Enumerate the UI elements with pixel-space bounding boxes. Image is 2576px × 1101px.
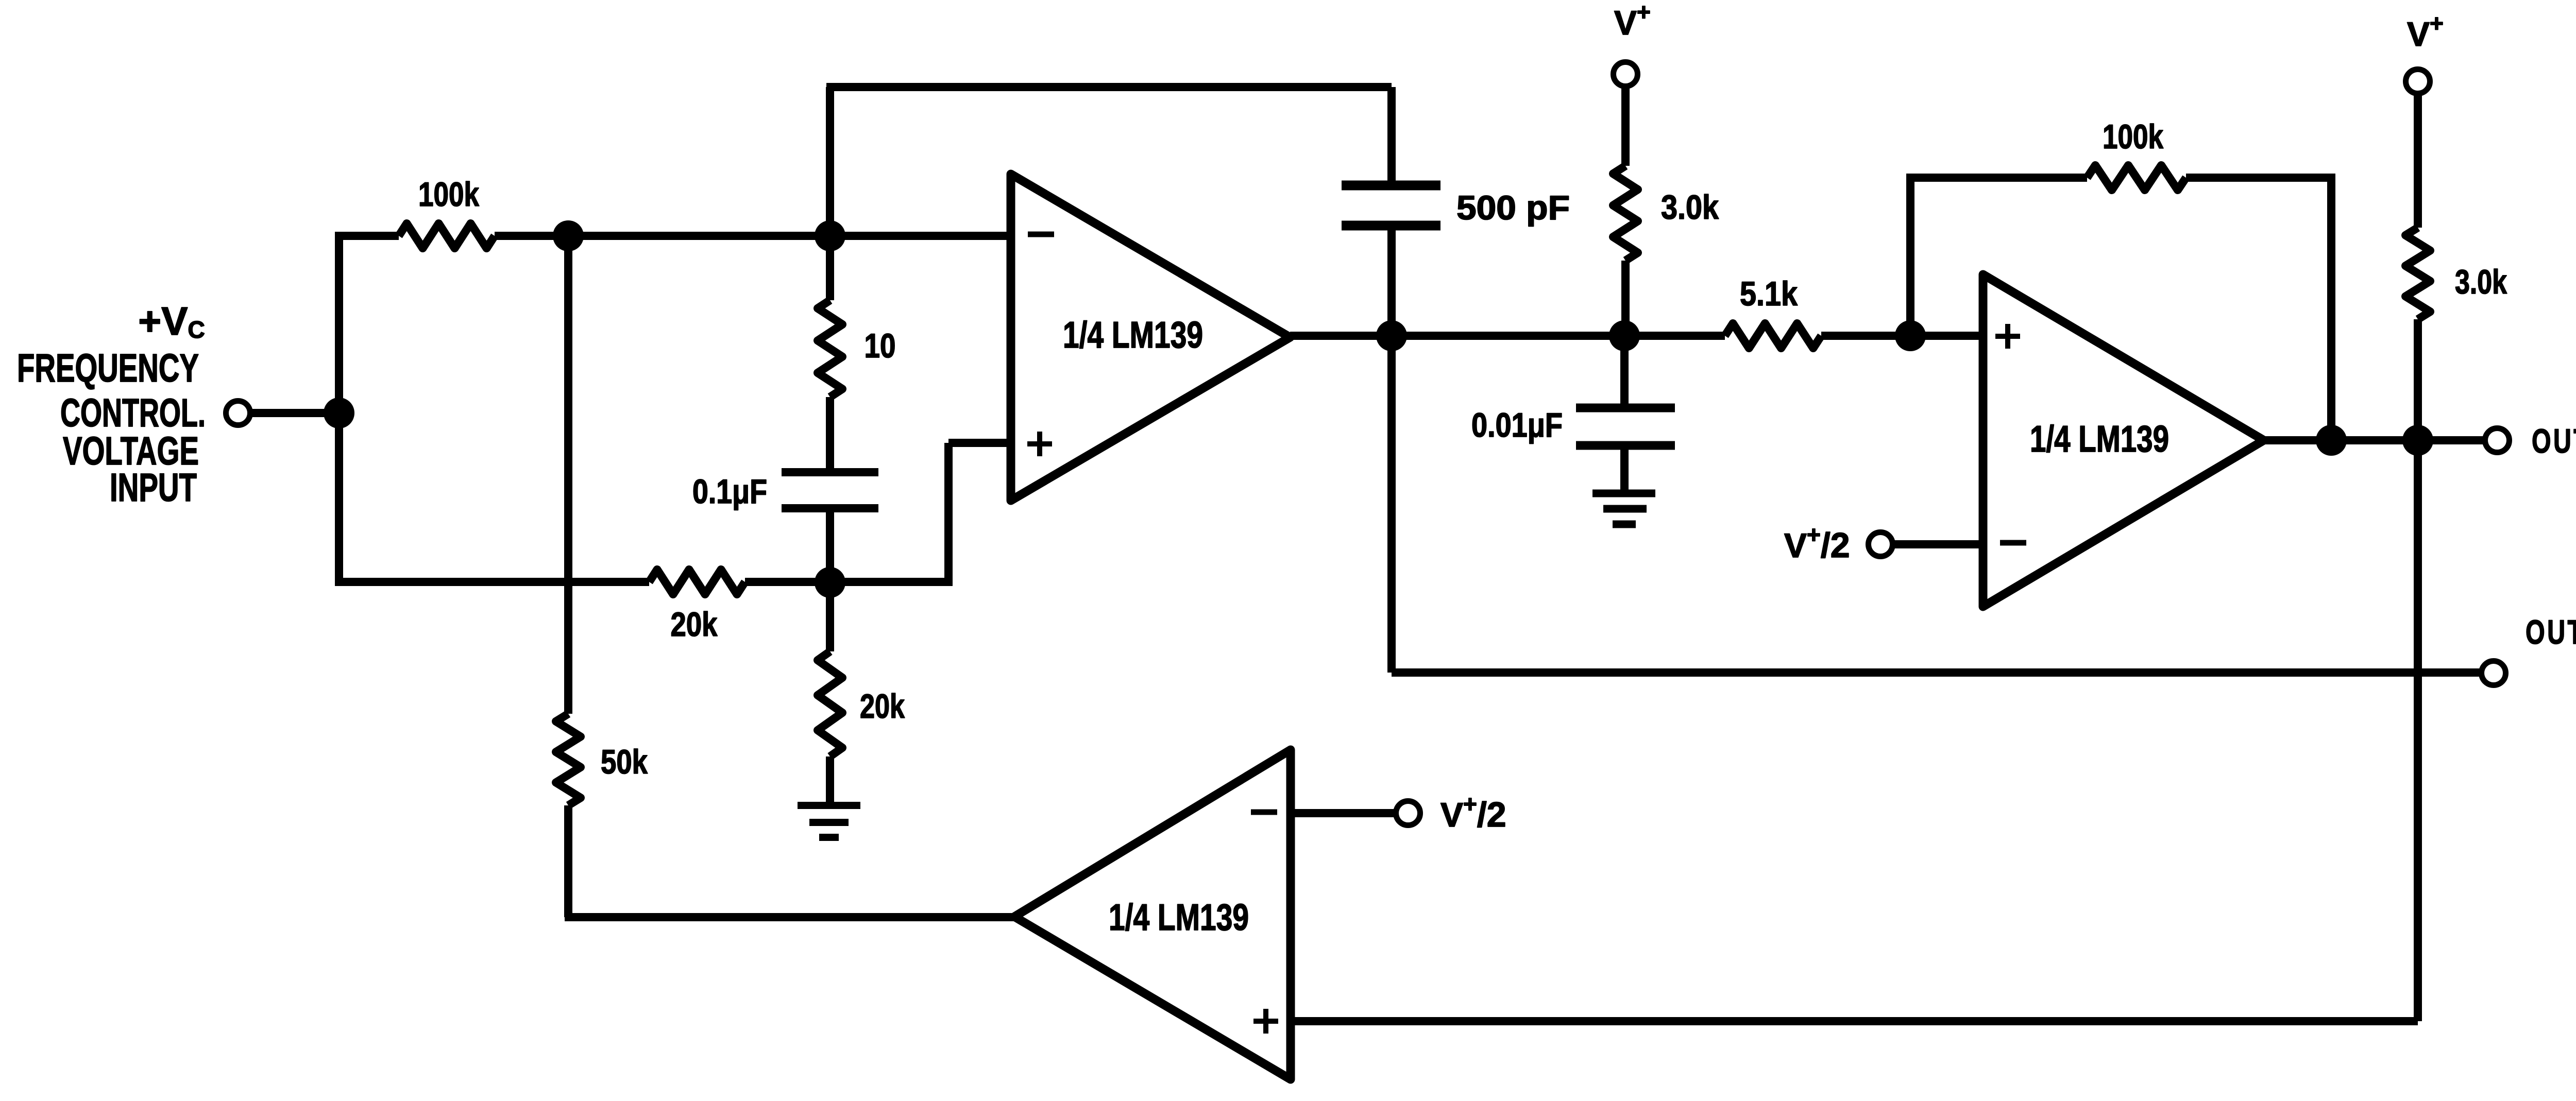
wire 5.1k to U2 plus xyxy=(1821,332,1983,340)
svg-text:5.1k: 5.1k xyxy=(1740,274,1798,313)
capacitor C1 0.1uF xyxy=(782,472,878,508)
svg-text:1/4 LM139: 1/4 LM139 xyxy=(1063,315,1203,356)
svg-text:FREQUENCY: FREQUENCY xyxy=(17,346,199,390)
svg-text:INPUT: INPUT xyxy=(110,466,197,510)
wire corner to U3 output xyxy=(565,913,1014,921)
input terminal +Vc xyxy=(226,401,250,425)
wire feedback left vertical xyxy=(826,87,834,300)
wire V+ to 3.0k xyxy=(1621,86,1630,166)
resistor R9 3.0k xyxy=(2405,228,2430,319)
node C junction dot xyxy=(815,220,845,251)
terminal V+ right xyxy=(2406,70,2430,94)
ground GND2 xyxy=(1592,493,1655,524)
wire output2 vertical xyxy=(1387,336,1396,673)
svg-text:0.1μF: 0.1μF xyxy=(692,472,767,510)
terminal OUTPUT 2 xyxy=(2482,661,2506,685)
wire 100k to corner xyxy=(2186,174,2331,182)
svg-text:+VC: +VC xyxy=(138,299,205,343)
svg-text:1/4 LM139: 1/4 LM139 xyxy=(1109,897,1249,938)
label frequency control voltage input xyxy=(17,299,206,510)
svg-text:50k: 50k xyxy=(601,743,648,781)
svg-text:20k: 20k xyxy=(671,605,718,643)
resistor R4 20k vertical xyxy=(818,651,842,756)
node D junction dot xyxy=(815,567,845,598)
svg-text:3.0k: 3.0k xyxy=(2455,263,2507,301)
svg-text:V+/2: V+/2 xyxy=(1784,521,1850,565)
svg-text:10: 10 xyxy=(865,326,896,365)
node B junction dot xyxy=(553,220,584,251)
terminal V+ mid xyxy=(1614,62,1638,87)
node H junction dot xyxy=(2316,425,2347,456)
op-amp U3 1/4 LM139 xyxy=(1014,750,1291,1079)
svg-text:3.0k: 3.0k xyxy=(1661,188,1719,226)
wire node A vertical xyxy=(335,232,343,582)
wire V+ right to 3.0k xyxy=(2414,93,2422,228)
svg-text:100k: 100k xyxy=(2103,117,2163,156)
wire node D to 20k vertical xyxy=(826,582,834,651)
wire output2 horizontal xyxy=(1392,668,2482,677)
node A junction dot xyxy=(324,398,354,428)
wire corner down to output1 xyxy=(2327,174,2335,440)
wire C1 to node D xyxy=(826,512,834,582)
resistor R3 20k horizontal xyxy=(649,570,745,594)
svg-text:100k: 100k xyxy=(418,175,479,213)
op-amp U2 1/4 LM139 xyxy=(1983,274,2264,607)
wire input terminal to node A xyxy=(250,409,339,417)
terminal V+/2 bottom xyxy=(1396,801,1420,825)
wire node I down xyxy=(2414,440,2422,1021)
resistor R7 5.1k xyxy=(1725,323,1821,348)
svg-text:20k: 20k xyxy=(860,687,905,725)
node F junction dot xyxy=(1609,320,1640,351)
wire 50k to corner xyxy=(564,805,572,917)
U1 plus sign xyxy=(1027,432,1052,456)
wire plus input vertical xyxy=(944,443,953,586)
U2 minus sign xyxy=(2000,540,2026,546)
wire 20k to plus corner xyxy=(745,578,948,586)
svg-text:0.01μF: 0.01μF xyxy=(1471,406,1563,444)
svg-text:OUTPUT 2: OUTPUT 2 xyxy=(2526,613,2576,651)
svg-text:V+: V+ xyxy=(1614,0,1651,42)
wire U3 minus to terminal xyxy=(1291,809,1396,817)
wire 100k to node B xyxy=(495,232,1011,240)
U2 plus sign xyxy=(1995,324,2020,349)
svg-text:V+: V+ xyxy=(2407,10,2444,53)
wire bottom horizontal to U3 plus xyxy=(1291,1017,2418,1025)
capacitor C2 500pF xyxy=(1342,185,1440,226)
resistor R2 10 xyxy=(818,300,842,397)
ground GND1 xyxy=(798,805,860,837)
terminal V+/2 mid xyxy=(1869,532,1893,557)
wire node B vertical 50k branch xyxy=(564,236,572,714)
capacitor C3 0.01uF xyxy=(1576,408,1675,445)
terminal OUTPUT 1 xyxy=(2485,428,2510,453)
wire to 100k R8 xyxy=(1906,174,2087,182)
wire node A to 100k xyxy=(339,232,399,240)
U3 minus sign xyxy=(1251,810,1277,815)
wire V+/2 to U2 minus xyxy=(1892,540,1983,548)
wire U2 output xyxy=(2264,436,2485,444)
wire 10 to C1 xyxy=(826,397,834,469)
wire feedback right vertical xyxy=(1387,87,1396,181)
resistor R6 3.0k xyxy=(1613,166,1638,261)
wire node G up xyxy=(1906,178,1914,336)
wire plus input to op-amp U1 xyxy=(948,439,1011,447)
U3 plus sign xyxy=(1253,1009,1278,1034)
U1 minus sign xyxy=(1028,232,1054,237)
node G junction dot xyxy=(1895,320,1926,351)
node E junction dot xyxy=(1376,320,1407,351)
wire feedback top xyxy=(826,83,1392,91)
wire U1 output xyxy=(1290,332,1725,340)
svg-text:500 pF: 500 pF xyxy=(1456,188,1570,227)
wire node F to C3 xyxy=(1620,336,1629,405)
svg-text:1/4 LM139: 1/4 LM139 xyxy=(2030,419,2169,460)
resistor R8 100k xyxy=(2087,165,2186,190)
wire 20k to ground xyxy=(826,756,834,803)
wire 3.0k to node F xyxy=(1621,261,1630,336)
wire y1130 horizontal xyxy=(335,578,649,586)
wire 3.0k to node I xyxy=(2414,319,2422,440)
op-amp U1 1/4 LM139 xyxy=(1011,174,1290,501)
svg-text:V+/2: V+/2 xyxy=(1440,790,1506,834)
wire C2 to node E xyxy=(1387,230,1396,336)
resistor R1 100k xyxy=(399,223,495,248)
resistor R5 50k xyxy=(556,714,581,805)
wire C3 to ground xyxy=(1620,449,1629,491)
svg-text:OUTPUT 1: OUTPUT 1 xyxy=(2532,422,2576,460)
node I junction dot xyxy=(2402,425,2433,456)
